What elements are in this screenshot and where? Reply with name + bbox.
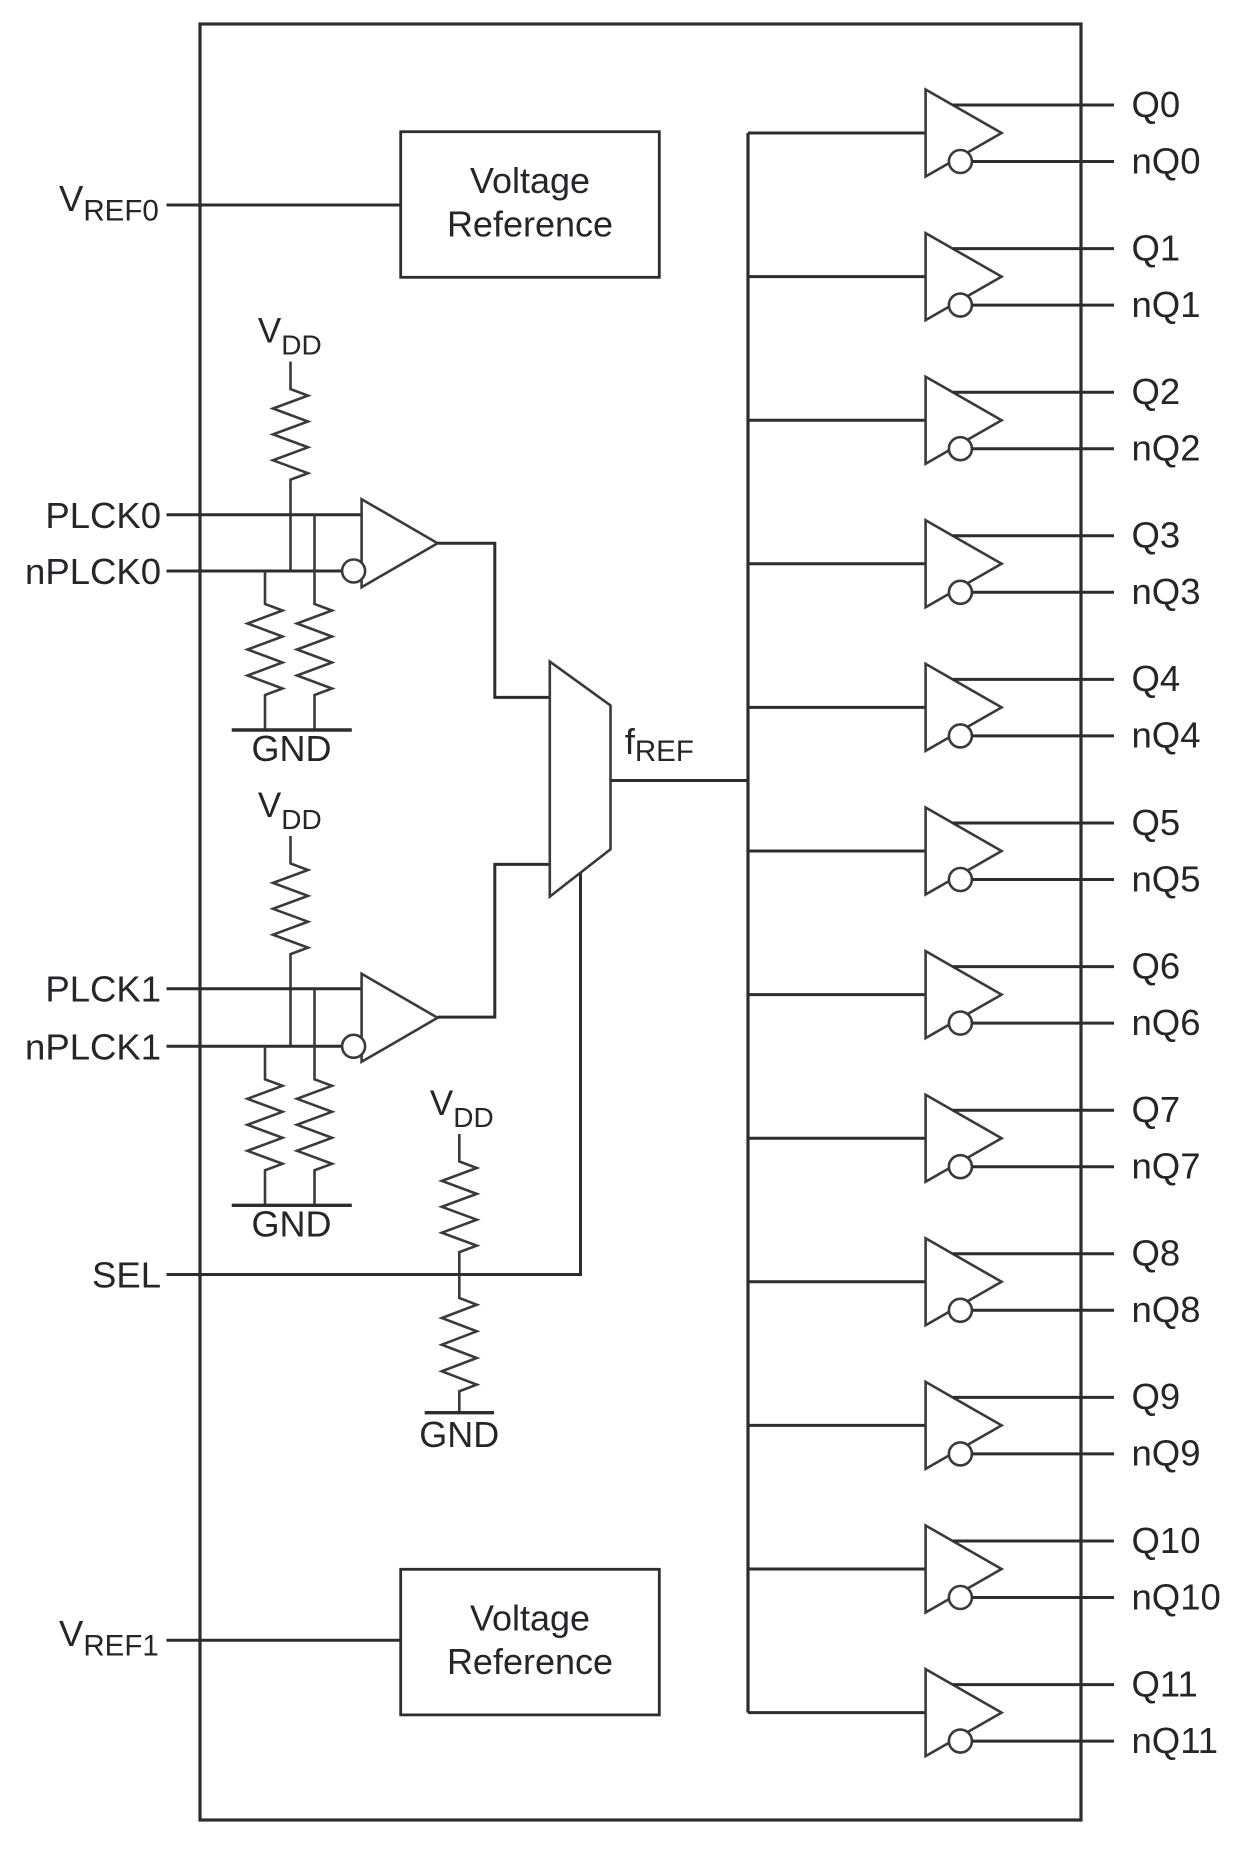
svg-text:Q0: Q0 <box>1132 84 1181 125</box>
wire bus to output buffer B11 <box>748 1711 926 1714</box>
svg-text:Q1: Q1 <box>1132 227 1181 268</box>
inversion bubble B7 <box>949 1155 972 1178</box>
wire bus to output buffer B10 <box>748 1568 926 1571</box>
svg-text:nQ7: nQ7 <box>1132 1146 1201 1187</box>
wire VREF0 <box>167 204 401 207</box>
svg-text:Q6: Q6 <box>1132 945 1181 986</box>
wire nPLCK0 <box>167 570 343 573</box>
inversion bubble B5 <box>949 868 972 891</box>
wire nPLCK1 <box>167 1045 343 1048</box>
wire buffer A2 output to mux input 1 <box>438 864 550 1017</box>
inversion bubble A1 (nPLCK0 input) <box>342 560 365 583</box>
wire nQ5 <box>972 878 1114 881</box>
wire bus to output buffer B4 <box>748 706 926 709</box>
output buffer B10 <box>926 1526 1002 1613</box>
svg-text:GND: GND <box>419 1414 499 1455</box>
svg-text:Q3: Q3 <box>1132 515 1181 556</box>
wire bus to output buffer B2 <box>748 419 926 422</box>
inversion bubble B8 <box>949 1299 972 1322</box>
wire Q5 <box>953 822 1114 825</box>
wire bus to output buffer B5 <box>748 850 926 853</box>
wire bus to output buffer B7 <box>748 1137 926 1140</box>
resistor R1 pull-up to VDD <box>273 362 308 571</box>
chip boundary <box>200 24 1081 1820</box>
svg-text:nQ1: nQ1 <box>1132 284 1201 325</box>
svg-text:PLCK1: PLCK1 <box>45 969 161 1010</box>
svg-text:Q5: Q5 <box>1132 802 1181 843</box>
wire nQ9 <box>972 1452 1114 1455</box>
svg-text:nPLCK1: nPLCK1 <box>25 1026 161 1067</box>
wire nQ2 <box>972 447 1114 450</box>
output buffer B0 <box>926 90 1002 177</box>
output buffer B3 <box>926 520 1002 607</box>
svg-text:Voltage: Voltage <box>470 1598 590 1639</box>
svg-text:Voltage: Voltage <box>470 160 590 201</box>
wire Q4 <box>953 678 1114 681</box>
svg-text:VDD: VDD <box>430 1084 494 1133</box>
svg-text:Reference: Reference <box>447 1641 613 1682</box>
svg-text:nQ9: nQ9 <box>1132 1433 1201 1474</box>
wire mux output fREF <box>611 779 749 782</box>
resistor R6 pull-down on PLCK1 <box>297 989 332 1206</box>
input buffer A1 (PLCK0/nPLCK0 receiver) <box>362 499 438 587</box>
inversion bubble B1 <box>949 294 972 317</box>
wire buffer A1 output to mux input 0 <box>438 543 550 697</box>
svg-text:Q7: Q7 <box>1132 1089 1181 1130</box>
wire VREF1 <box>167 1639 401 1642</box>
svg-text:nQ2: nQ2 <box>1132 428 1201 469</box>
voltage reference U2 <box>401 1569 660 1715</box>
ground GND (PLCK1 bias) <box>232 1204 352 1207</box>
svg-text:nQ10: nQ10 <box>1132 1576 1221 1617</box>
output buffer B7 <box>926 1095 1002 1182</box>
svg-text:VDD: VDD <box>258 312 322 361</box>
svg-text:nQ0: nQ0 <box>1132 140 1201 181</box>
output buffer B4 <box>926 664 1002 751</box>
svg-text:Q9: Q9 <box>1132 1376 1181 1417</box>
output buffer B5 <box>926 808 1002 895</box>
wire bus to output buffer B9 <box>748 1424 926 1427</box>
output buffer B1 <box>926 233 1002 320</box>
wire Q3 <box>953 534 1114 537</box>
svg-text:nQ11: nQ11 <box>1132 1720 1219 1761</box>
output buffer B8 <box>926 1238 1002 1325</box>
wire Q9 <box>953 1396 1114 1399</box>
svg-text:Q8: Q8 <box>1132 1233 1181 1274</box>
svg-text:nQ5: nQ5 <box>1132 858 1201 899</box>
resistor R3 pull-down on PLCK0 <box>297 515 332 730</box>
svg-text:nPLCK0: nPLCK0 <box>25 551 161 592</box>
wire nQ10 <box>972 1596 1114 1599</box>
wire SEL (with riser to mux select input) <box>167 873 581 1275</box>
resistor R2 pull-down on nPLCK0 <box>248 571 283 730</box>
wire Q6 <box>953 965 1114 968</box>
inversion bubble A2 (nPLCK1 input) <box>342 1035 365 1058</box>
wire nQ11 <box>972 1740 1114 1743</box>
ground GND (SEL) <box>425 1411 494 1414</box>
output buffer B6 <box>926 951 1002 1038</box>
svg-text:VDD: VDD <box>258 786 322 835</box>
inversion bubble B4 <box>949 724 972 747</box>
svg-text:Q11: Q11 <box>1132 1663 1198 1704</box>
wire nQ0 <box>972 160 1114 163</box>
svg-text:PLCK0: PLCK0 <box>45 495 161 536</box>
svg-text:Reference: Reference <box>447 204 613 245</box>
output buffer B9 <box>926 1382 1002 1469</box>
mux U3 (reference select) <box>550 662 611 897</box>
wire nQ8 <box>972 1309 1114 1312</box>
inversion bubble B0 <box>949 150 972 173</box>
svg-text:GND: GND <box>252 728 332 769</box>
svg-text:GND: GND <box>252 1203 332 1244</box>
inversion bubble B6 <box>949 1012 972 1035</box>
wire bus to output buffer B3 <box>748 562 926 565</box>
svg-text:Q10: Q10 <box>1132 1520 1201 1561</box>
resistor R5 pull-down on nPLCK1 <box>248 1046 283 1205</box>
svg-text:fREF: fREF <box>625 721 694 768</box>
wire Q2 <box>953 391 1114 394</box>
svg-text:Q2: Q2 <box>1132 371 1181 412</box>
svg-text:nQ3: nQ3 <box>1132 571 1201 612</box>
resistor R4 pull-up to VDD <box>273 836 308 1046</box>
wire Q1 <box>953 247 1114 250</box>
svg-text:VREF1: VREF1 <box>59 1613 159 1663</box>
wire nQ1 <box>972 304 1114 307</box>
voltage reference U1 <box>401 132 660 278</box>
wire Q7 <box>953 1109 1114 1112</box>
wire Q10 <box>953 1540 1114 1543</box>
ground GND (PLCK0 bias) <box>232 728 352 731</box>
svg-text:nQ8: nQ8 <box>1132 1289 1201 1330</box>
wire PLCK0 <box>167 513 362 516</box>
inversion bubble B11 <box>949 1730 972 1753</box>
output buffer B2 <box>926 377 1002 464</box>
svg-text:nQ4: nQ4 <box>1132 715 1201 756</box>
wire bus to output buffer B8 <box>748 1280 926 1283</box>
resistor R7 pull-up on SEL <box>442 1134 477 1275</box>
wire bus to output buffer B0 <box>748 132 926 135</box>
svg-text:nQ6: nQ6 <box>1132 1002 1201 1043</box>
wire Q11 <box>953 1683 1114 1686</box>
wire bus to output buffer B6 <box>748 993 926 996</box>
svg-text:SEL: SEL <box>92 1255 161 1296</box>
inversion bubble B9 <box>949 1442 972 1465</box>
wire fREF distribution bus <box>746 133 749 1713</box>
svg-text:VREF0: VREF0 <box>59 178 159 228</box>
input buffer A2 (PLCK1/nPLCK1 receiver) <box>362 974 438 1062</box>
inversion bubble B2 <box>949 437 972 460</box>
wire nQ6 <box>972 1022 1114 1025</box>
wire bus to output buffer B1 <box>748 275 926 278</box>
wire nQ4 <box>972 734 1114 737</box>
inversion bubble B3 <box>949 581 972 604</box>
svg-text:Q4: Q4 <box>1132 658 1181 699</box>
wire nQ7 <box>972 1165 1114 1168</box>
inversion bubble B10 <box>949 1586 972 1609</box>
output buffer B11 <box>926 1669 1002 1756</box>
wire Q8 <box>953 1252 1114 1255</box>
wire nQ3 <box>972 591 1114 594</box>
wire Q0 <box>953 104 1114 107</box>
resistor R8 pull-down on SEL <box>442 1275 477 1413</box>
wire PLCK1 <box>167 987 362 990</box>
